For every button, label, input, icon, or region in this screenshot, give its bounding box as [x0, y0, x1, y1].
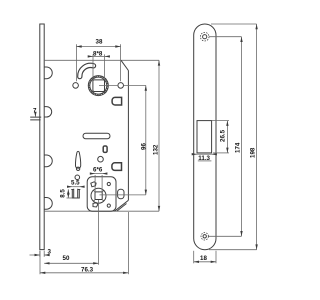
bottom hub circle [91, 188, 106, 203]
latch bump 2 [44, 107, 51, 117]
oval slot [83, 133, 110, 139]
svg-text:7: 7 [33, 108, 37, 115]
teardrop lever [75, 151, 80, 168]
svg-text:18: 18 [200, 255, 207, 262]
D clip top right [112, 97, 122, 105]
bottom plate rounded square [87, 177, 116, 211]
latch cutout [197, 121, 212, 153]
latch bump 4 [44, 198, 52, 210]
inner bevel line [117, 204, 127, 212]
spindle hub inner circle [90, 77, 107, 94]
body top edge with extension to 132 dim [44, 59, 159, 61]
latch bump 3 [44, 155, 52, 167]
bottom screw hole knurl [201, 233, 208, 240]
spindle hub knurl ring [89, 76, 108, 95]
screw hole right [118, 83, 124, 89]
stub pill right [118, 189, 124, 199]
D clip big [112, 163, 122, 171]
spindle hub outer circle [88, 76, 108, 96]
faceplate edge view [40, 24, 44, 250]
spindle square hole 8x8 [93, 80, 105, 92]
latch bump 1 [44, 67, 52, 79]
svg-text:3: 3 [48, 248, 52, 255]
teardrop hole [76, 167, 79, 170]
small circle plate top-right [107, 182, 110, 185]
screw hole left [73, 83, 79, 89]
seam lines under bump 2 [30, 117, 41, 120]
circle mid [98, 156, 104, 162]
small circle below teardrop [75, 175, 80, 180]
body bottom edge with extension to 132 dim [44, 210, 159, 212]
clip top-left in plate [91, 182, 96, 187]
bottom screw hole inner [203, 235, 206, 238]
small D clip middle [103, 146, 107, 152]
svg-text:6*6: 6*6 [93, 166, 103, 173]
magnet bracket 5.5 [71, 189, 80, 198]
svg-text:198: 198 [249, 147, 256, 158]
bottom square corner ticks [94, 191, 104, 201]
dim 11.3 [197, 153, 212, 155]
svg-text:26.5: 26.5 [220, 129, 227, 142]
svg-text:96: 96 [140, 143, 147, 150]
body top bevel [121, 60, 128, 70]
body bottom bevel [115, 200, 129, 211]
svg-text:174: 174 [234, 142, 241, 153]
svg-text:38: 38 [96, 38, 103, 45]
svg-text:76.3: 76.3 [81, 266, 94, 273]
body right edge [127, 71, 129, 201]
faceplate outline [194, 24, 216, 250]
spindle square corner ticks [91, 78, 106, 93]
small circle plate bottom-right [107, 204, 110, 207]
svg-text:132: 132 [152, 144, 159, 155]
svg-text:50: 50 [63, 255, 70, 262]
spring crescent slot [80, 65, 94, 76]
top screw hole knurl [200, 32, 209, 41]
bottom square hole 6x6 [95, 192, 102, 200]
svg-text:5.5: 5.5 [71, 180, 80, 187]
svg-text:8.5: 8.5 [60, 189, 67, 198]
top screw hole inner [203, 35, 207, 39]
clip bottom-left in plate [93, 203, 98, 207]
